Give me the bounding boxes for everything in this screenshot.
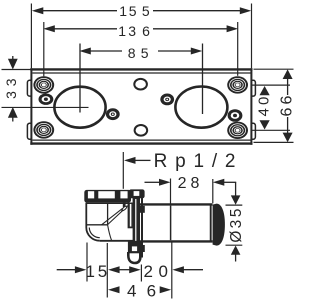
dimension line 33 upper	[12, 56, 14, 62]
arrow Rp1/2	[124, 157, 136, 164]
leader diagonal upper	[101, 208, 122, 225]
small grommet beside right hole	[160, 94, 174, 106]
cylinder bottom wall	[139, 240, 213, 242]
wall flange assembly	[122, 189, 145, 263]
svg-text:4: 4	[255, 108, 272, 116]
dimension 40 right	[251, 85, 290, 130]
svg-text:3: 3	[128, 23, 136, 39]
end cap	[213, 204, 225, 246]
svg-text:0: 0	[158, 262, 167, 281]
flange top cap	[129, 189, 145, 198]
arrow 155 right	[240, 7, 252, 14]
svg-text:5: 5	[141, 45, 149, 61]
svg-text:2: 2	[143, 262, 152, 281]
plate left edge	[30, 68, 32, 145]
arrow 40 up	[260, 86, 270, 95]
svg-text:6: 6	[147, 281, 156, 300]
dimension 136	[43, 23, 238, 39]
dimension line 155	[42, 10, 117, 12]
svg-text:1: 1	[85, 262, 94, 281]
cylinder body	[139, 204, 213, 241]
svg-text:5: 5	[129, 3, 137, 19]
arrow 33 down	[8, 59, 18, 70]
svg-text:0: 0	[255, 97, 272, 105]
arrow 155 left	[32, 7, 44, 14]
ext line 33 top	[2, 69, 31, 71]
dimension 33 left	[2, 56, 31, 122]
flange left attachment	[128, 203, 133, 229]
arrow 28 left	[159, 179, 171, 186]
flange bottom block	[128, 241, 141, 253]
left edge tab lower	[27, 123, 31, 139]
plate bottom edge	[30, 142, 252, 144]
nut slot 2	[98, 191, 115, 198]
ext line elbow left edge	[86, 243, 88, 282]
ext line d35 bottom	[226, 244, 243, 246]
elbow outer arc	[86, 228, 100, 241]
large hole left	[54, 87, 105, 128]
dimension 66 right	[254, 69, 296, 142]
ext lines bottom	[87, 243, 172, 299]
ext line 136 right	[237, 22, 239, 76]
svg-text:1: 1	[119, 3, 127, 19]
arrow 85 right	[191, 48, 203, 55]
leader line 28 right	[224, 181, 236, 183]
grommet bottom-left	[33, 121, 54, 138]
rear knob upper	[140, 206, 145, 213]
arrow 20 right	[172, 266, 184, 273]
cylinder joint line	[170, 206, 172, 241]
plate top edge	[30, 68, 252, 70]
leader line 20 right	[183, 269, 203, 271]
elbow top line under nut	[86, 202, 133, 204]
dimension line d35 upper	[235, 182, 237, 195]
centerline horizontal left hole	[2, 106, 89, 108]
right edge tab upper	[251, 80, 255, 96]
nut slot 3	[120, 191, 127, 198]
svg-text:8: 8	[190, 175, 199, 192]
dimension 155	[32, 3, 252, 19]
dimension 28	[145, 175, 237, 204]
rear knob lower	[140, 245, 145, 252]
arrow 85 left	[79, 48, 91, 55]
svg-text:6: 6	[142, 23, 150, 39]
elbow inner wall vertical	[107, 203, 109, 225]
svg-text:3: 3	[3, 91, 19, 99]
grommet bottom-right	[227, 122, 248, 139]
plate inner top line	[32, 72, 250, 74]
label Rp 1/2	[123, 151, 243, 189]
ext line 136 left	[43, 22, 45, 76]
svg-text:6: 6	[278, 107, 295, 116]
svg-text:Rp1/2: Rp1/2	[154, 151, 244, 172]
elbow bottom wall	[100, 240, 133, 242]
dimension line 66	[287, 79, 289, 96]
arrow d35 down	[231, 195, 241, 204]
ext line d35 top	[226, 204, 243, 206]
dimension line between 15 and 20	[119, 269, 130, 271]
ext line 66 top	[254, 68, 294, 70]
arrow 66 down	[283, 133, 293, 143]
arrow 15 left	[75, 266, 87, 273]
dimension 15 and 20	[57, 262, 203, 281]
arrow 33 up	[8, 107, 18, 118]
left edge tab upper	[27, 80, 31, 96]
arrow 66 up	[283, 69, 293, 79]
ext line 28 right	[212, 179, 214, 203]
small hole bottom-center	[135, 125, 148, 136]
cylinder top wall	[139, 203, 213, 205]
arrow 46 left	[108, 286, 120, 293]
arrow 136 left	[43, 25, 55, 32]
dimension line 33 lower	[12, 116, 14, 122]
ext line elbow centerline	[106, 243, 108, 298]
ext line 155 right	[251, 4, 253, 69]
arrow 40 down	[260, 120, 270, 129]
svg-text:3: 3	[3, 78, 19, 86]
svg-text:1: 1	[118, 23, 126, 39]
bottom hook	[128, 252, 140, 263]
arrow 15 right	[108, 266, 120, 273]
svg-text:5: 5	[98, 262, 107, 281]
dimension line 136	[54, 28, 117, 30]
svg-text:8: 8	[128, 45, 136, 61]
svg-text:2: 2	[178, 175, 187, 192]
nut slot 1	[88, 191, 94, 198]
grommet top-right	[227, 76, 248, 93]
svg-text:5: 5	[142, 3, 150, 19]
leader line 15 left	[57, 269, 77, 271]
small grommet beside left hole	[106, 108, 120, 120]
union nut body	[84, 190, 131, 203]
arrow 28 right	[213, 179, 225, 186]
right edge tab lower	[251, 123, 255, 139]
flange main bar	[133, 198, 140, 253]
ext line 155 left	[30, 4, 32, 69]
leader line Rp1/2	[135, 159, 151, 161]
elbow inner wall horizontal	[87, 224, 108, 226]
elbow body	[86, 203, 133, 241]
plate inner bottom line	[32, 139, 250, 141]
ext line Rp1/2	[122, 152, 124, 189]
grommet top-left	[33, 76, 54, 93]
arrow 136 right	[227, 25, 239, 32]
small grommet left cluster	[39, 94, 54, 105]
dimension 46	[108, 281, 171, 300]
ext line wall plane	[140, 265, 142, 282]
cylinder end line	[210, 205, 212, 240]
dimension line d35 lower	[235, 254, 237, 261]
elbow left wall	[85, 203, 87, 228]
svg-text:5: 5	[228, 209, 245, 218]
arrow 46 right	[160, 286, 172, 293]
centerline vertical left hole	[79, 44, 81, 113]
ext line 40 bottom	[251, 129, 290, 131]
dimension line 85	[90, 50, 122, 52]
arrow 20 left	[129, 266, 141, 273]
svg-text:4: 4	[127, 281, 136, 300]
leader line 28 left	[145, 181, 161, 183]
ext line 28 left	[170, 179, 172, 204]
ext line 40 top	[251, 84, 290, 86]
small hole top-center	[134, 79, 147, 90]
leader diagonal lower	[108, 211, 123, 225]
centerline vertical right hole	[202, 44, 204, 115]
elbow bore transition line	[108, 225, 112, 240]
arrow d35 up	[231, 246, 241, 255]
elbow inner arc	[89, 228, 100, 238]
flange rear bar	[141, 197, 143, 258]
large hole right	[175, 87, 227, 128]
pointer flag	[122, 206, 127, 211]
svg-text:3: 3	[228, 220, 245, 229]
small grommet right cluster	[228, 109, 243, 122]
clamp screw block	[123, 203, 126, 207]
dimension 85	[79, 45, 202, 61]
ext line cylinder joint	[171, 243, 173, 299]
plate right edge	[250, 68, 252, 145]
ext line 66 bottom	[254, 141, 294, 143]
svg-text:6: 6	[278, 95, 295, 104]
dimension diameter 35	[226, 182, 246, 261]
svg-text:Ø: Ø	[228, 231, 245, 243]
